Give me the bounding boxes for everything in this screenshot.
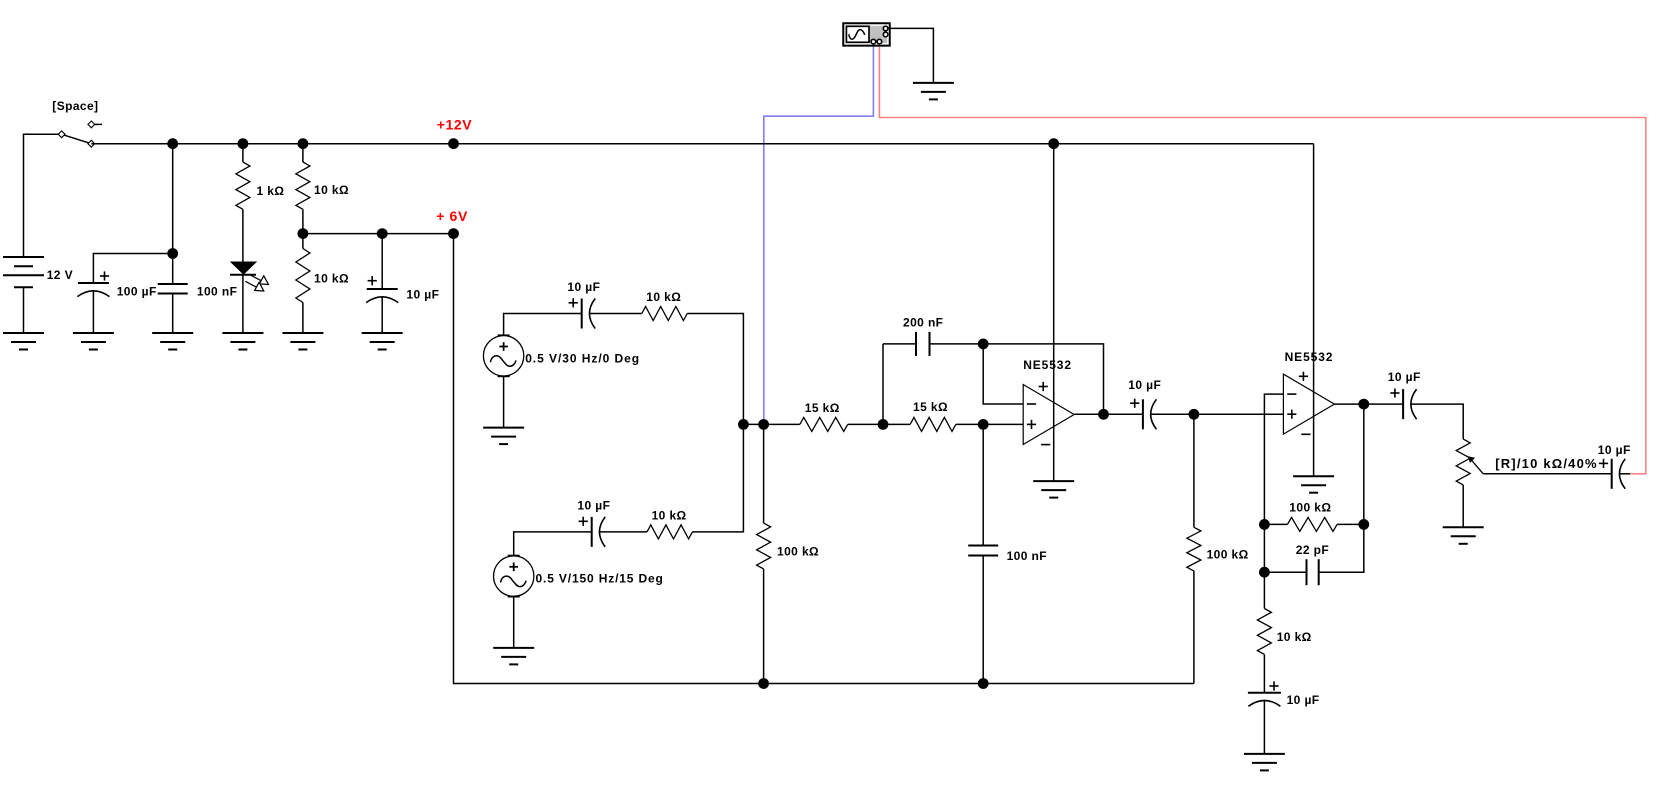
junction +6V at cap	[377, 228, 388, 239]
capacitor C10 10uF gain leg	[1248, 681, 1281, 706]
capacitor C11 10uF output coupling	[1390, 388, 1416, 419]
junction rail at 1k	[238, 138, 249, 149]
junction node E minus input tap	[978, 339, 989, 350]
wire U1 power from rail through to ground	[1053, 144, 1055, 481]
AC source V2	[483, 335, 523, 376]
resistor R4 10 kOhm	[642, 307, 687, 321]
wire 100nF to ground	[172, 294, 174, 334]
junction rail at divider	[298, 138, 309, 149]
wire C10 to ground	[1263, 701, 1265, 754]
ground U2	[1293, 476, 1334, 493]
resistor R10 100 kOhm feedback	[1264, 523, 1287, 525]
wire C4 to R4	[590, 313, 642, 315]
wire C12 stub	[1620, 473, 1630, 475]
junction node B scope tap	[758, 419, 769, 430]
ground C10	[1244, 754, 1285, 771]
svg-text:NE5532: NE5532	[1285, 350, 1334, 364]
resistor R9 100 kOhm to reference	[1193, 414, 1195, 527]
svg-text:100 kΩ: 100 kΩ	[1207, 548, 1249, 562]
ground 100uF	[73, 333, 114, 350]
switch S1 [Space] blade	[58, 131, 94, 147]
wire U1 output to node F	[1074, 413, 1103, 415]
svg-text:200 nF: 200 nF	[903, 316, 943, 330]
junction rail at U1 power	[1048, 138, 1059, 149]
wire +12V rail	[91, 143, 1313, 145]
wire V3 top	[514, 532, 592, 556]
svg-text:15 kΩ: 15 kΩ	[913, 400, 948, 414]
wire C7 to bottom rail	[982, 556, 984, 684]
capacitor C4 10uF coupling	[569, 298, 596, 328]
wire C11 to potentiometer	[1411, 404, 1463, 439]
junction bottom rail at R7	[758, 678, 769, 689]
wire +6V down left side to bottom reference rail	[454, 234, 1194, 684]
svg-text:NE5532: NE5532	[1023, 358, 1072, 372]
wire R5 to summing node	[692, 424, 743, 532]
junction node I	[1259, 567, 1270, 578]
svg-text:10 kΩ: 10 kΩ	[314, 272, 349, 286]
wire node J up to output node K	[1363, 404, 1365, 524]
svg-text:100 kΩ: 100 kΩ	[1289, 501, 1331, 515]
AC source V3	[494, 556, 534, 597]
wire wiper to C12	[1483, 473, 1612, 475]
oscilloscope XSC1 body	[843, 23, 890, 46]
ground U1	[1033, 481, 1074, 498]
ground V3	[493, 648, 534, 665]
junction bottom rail at C7	[978, 678, 989, 689]
resistor R8 15 kOhm	[883, 423, 910, 425]
resistor R5 10 kOhm	[647, 525, 692, 539]
junction +12V label anchor	[448, 138, 459, 149]
svg-text:10 µF: 10 µF	[406, 288, 439, 302]
wire R10 to node J	[1337, 523, 1364, 525]
wire pot bottom to ground	[1462, 485, 1464, 527]
junction 100uF tap	[167, 248, 178, 259]
svg-text:10 kΩ: 10 kΩ	[1277, 630, 1312, 644]
junction node K output	[1358, 399, 1369, 410]
wire V2 to ground	[503, 376, 505, 427]
wire node A to node B	[743, 423, 763, 425]
svg-text:0.5 V/150 Hz/15 Deg: 0.5 V/150 Hz/15 Deg	[536, 572, 664, 586]
capacitor C9 22 pF feedback	[1307, 559, 1319, 585]
wire scope channel A probe (blue)	[764, 44, 874, 425]
wire battery top to switch	[24, 134, 62, 257]
op-amp U1 NE5532	[1023, 382, 1074, 445]
wire U2 power from rail through to ground	[1313, 144, 1315, 477]
svg-text:100 kΩ: 100 kΩ	[777, 545, 819, 559]
capacitor C6 200 nF feedback	[916, 332, 930, 356]
wire rail to R1	[242, 144, 244, 162]
wire node H to node I	[1263, 524, 1265, 572]
wire node E to op-amp minus input	[983, 344, 1023, 404]
wire rail to R2	[302, 144, 304, 162]
svg-text:10 µF: 10 µF	[567, 280, 600, 294]
wire node C up to feedback	[882, 344, 884, 425]
svg-text:10 µF: 10 µF	[577, 499, 610, 513]
wire node D to op-amp plus input	[983, 423, 1023, 425]
capacitor C5 10uF coupling	[579, 517, 606, 547]
junction node A summing	[738, 419, 749, 430]
junction node J	[1358, 519, 1369, 530]
svg-text:100 nF: 100 nF	[197, 285, 237, 299]
resistor R7 100 kOhm to reference	[763, 424, 765, 523]
capacitor C3 10uF on +6V	[366, 234, 398, 303]
wire scope channel B probe (red)	[879, 44, 1645, 474]
resistor R1 1 kOhm	[236, 162, 250, 209]
svg-text:10 µF: 10 µF	[1388, 370, 1421, 384]
capacitor C8 10uF coupling	[1130, 399, 1156, 430]
svg-text:100 µF: 100 µF	[117, 285, 157, 299]
capacitor C12 10uF output	[1599, 459, 1625, 489]
ground pot	[1443, 527, 1484, 544]
wire R1 to LED	[242, 209, 244, 262]
junction +6V label anchor	[448, 228, 459, 239]
ground scope	[913, 83, 954, 100]
wire C8 to node G	[1151, 413, 1194, 415]
wire rail to 100nF branch	[172, 144, 174, 284]
wire node B to R6	[764, 423, 800, 425]
wire R2 to +6V node	[302, 209, 304, 233]
junction +6V at divider	[298, 228, 309, 239]
wire R3 to ground	[302, 303, 304, 334]
wire scope ground terminal	[888, 28, 933, 83]
wire R7 to bottom rail	[763, 569, 765, 684]
svg-text:1 kΩ: 1 kΩ	[257, 184, 285, 198]
wire R6 to node C	[848, 423, 883, 425]
wire node I to C9	[1264, 571, 1306, 573]
ground 100nF	[152, 333, 193, 350]
svg-text:10 kΩ: 10 kΩ	[314, 183, 349, 197]
svg-text:22 pF: 22 pF	[1296, 543, 1329, 557]
svg-text:+ 6V: + 6V	[436, 208, 468, 224]
resistor R6 15 kOhm	[800, 417, 848, 431]
wire R4 to summing node	[687, 314, 743, 425]
junction node F output	[1098, 409, 1109, 420]
resistor R2 10 kOhm (upper divider)	[296, 162, 310, 209]
wire U2 output to node K	[1334, 403, 1363, 405]
svg-text:10 kΩ: 10 kΩ	[652, 509, 687, 523]
junction node C	[878, 419, 889, 430]
ground C3	[362, 333, 403, 350]
wire feedback top right segment	[930, 344, 1104, 414]
wire feedback top left segment	[883, 343, 916, 345]
wire U2 minus input to feedback column	[1264, 394, 1283, 524]
wire C9 to feedback right column	[1319, 524, 1364, 572]
wire tap to 100uF	[93, 254, 172, 284]
svg-text:100 nF: 100 nF	[1007, 549, 1047, 563]
wire battery bottom to ground	[23, 287, 25, 333]
junction node G	[1189, 409, 1200, 420]
capacitor C7 100 nF to reference	[982, 424, 984, 545]
battery V1 12 V	[3, 257, 44, 287]
svg-text:10 µF: 10 µF	[1128, 378, 1161, 392]
wire node G to U2 plus input	[1194, 413, 1284, 415]
ground V2	[483, 428, 524, 445]
wire V2 top	[504, 314, 582, 336]
wire 100uF to ground	[92, 291, 94, 333]
svg-text:15 kΩ: 15 kΩ	[805, 401, 840, 415]
svg-text:0.5 V/30 Hz/0 Deg: 0.5 V/30 Hz/0 Deg	[525, 352, 640, 366]
LED D1	[230, 262, 269, 291]
wire V3 to ground	[513, 597, 515, 648]
ground LED	[222, 333, 263, 350]
svg-text:10 µF: 10 µF	[1287, 693, 1320, 707]
svg-text:10 µF: 10 µF	[1598, 443, 1631, 457]
capacitor C1 100uF polarized	[77, 271, 109, 296]
capacitor C2 100nF	[158, 284, 188, 294]
svg-text:12 V: 12 V	[47, 268, 73, 282]
wire LED to ground	[242, 275, 244, 333]
wire C5 to R5	[600, 531, 647, 533]
junction rail at 100nF	[167, 138, 178, 149]
ground battery	[3, 333, 44, 350]
svg-text:[Space]: [Space]	[52, 99, 98, 113]
wire C3 to ground	[381, 297, 383, 333]
junction node D plus input	[978, 419, 989, 430]
potentiometer wiper arrow	[1468, 456, 1483, 474]
ground R3	[282, 333, 323, 350]
svg-text:+12V: +12V	[437, 116, 473, 132]
svg-text:[R]/10 kΩ/40%: [R]/10 kΩ/40%	[1495, 456, 1598, 471]
wire R8 to node D	[956, 423, 983, 425]
switch S1 open throw contact	[88, 121, 102, 128]
resistor R11 10 kOhm gain leg	[1263, 572, 1265, 608]
op-amp U2 NE5532	[1283, 372, 1334, 435]
wire R9 to bottom rail	[1193, 571, 1195, 684]
potentiometer R12 10 kOhm	[1456, 439, 1470, 485]
wire +6V rail	[303, 233, 454, 235]
svg-text:10 kΩ: 10 kΩ	[646, 290, 681, 304]
resistor R3 10 kOhm (lower divider)	[302, 234, 304, 249]
wire node K to C11	[1364, 403, 1403, 405]
wire R11 to C10	[1263, 654, 1265, 692]
junction node H	[1259, 519, 1270, 530]
wire node F to C8	[1104, 413, 1143, 415]
